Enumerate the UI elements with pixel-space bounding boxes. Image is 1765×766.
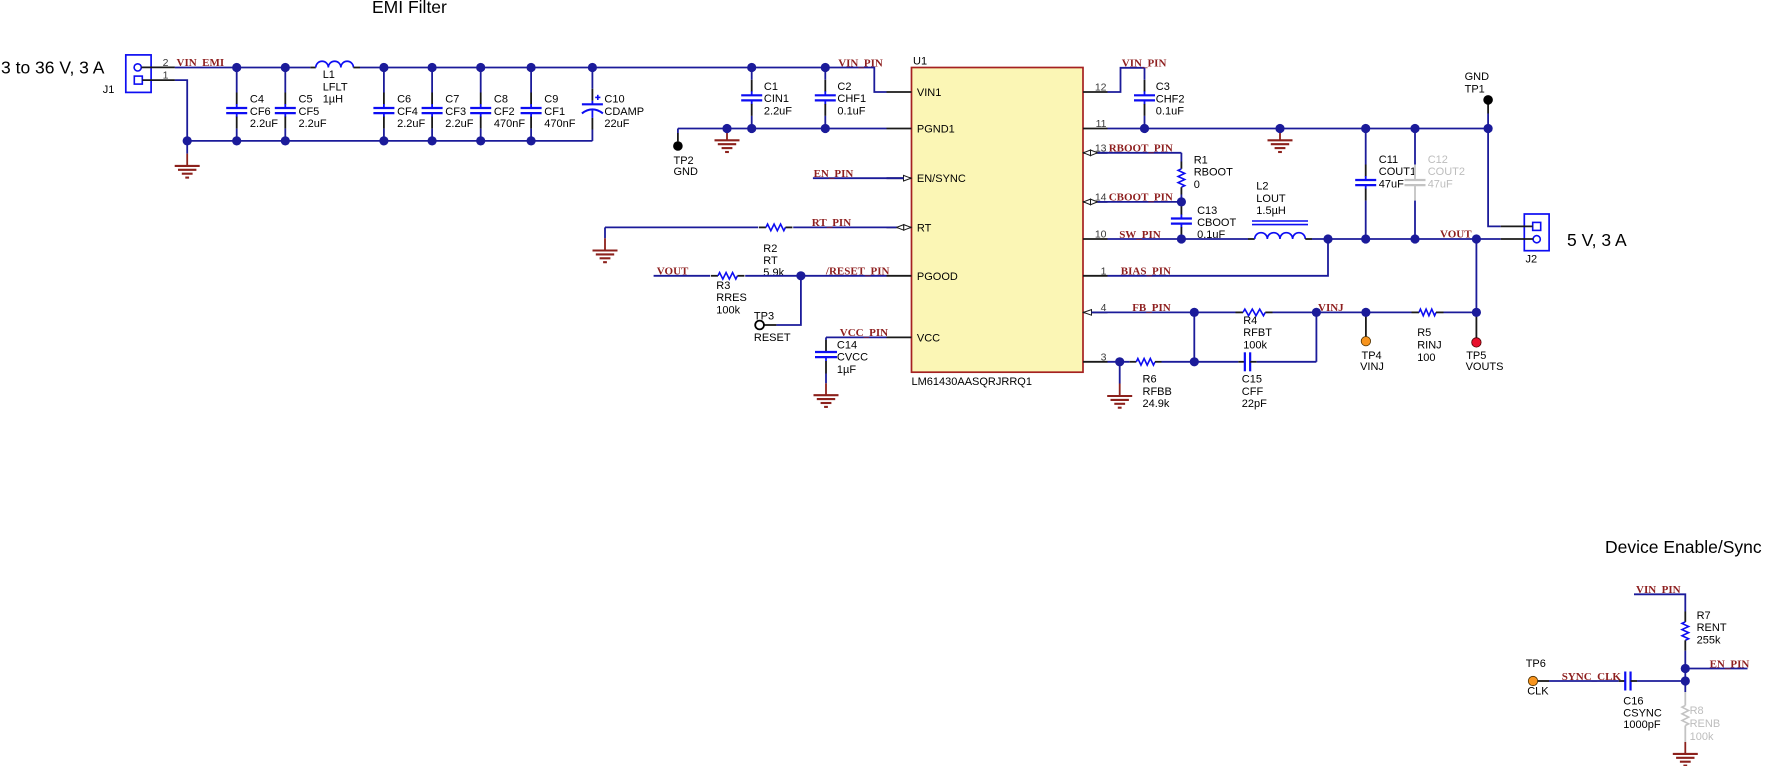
junction PGND at ground xyxy=(722,124,731,133)
net label EN_PIN device xyxy=(1710,658,1750,670)
svg-text:0: 0 xyxy=(1194,179,1200,191)
svg-text:CBOOT_PIN: CBOOT_PIN xyxy=(1109,192,1173,204)
svg-text:PGND1: PGND1 xyxy=(917,124,955,136)
junction FB TP4 xyxy=(1361,308,1370,317)
ground at PGND1 xyxy=(715,130,740,152)
svg-text:3 to 36 V, 3 A: 3 to 36 V, 3 A xyxy=(1,58,105,78)
junction EN_PIN device xyxy=(1681,664,1690,673)
svg-text:C16: C16 xyxy=(1623,696,1643,708)
net label SW_PIN xyxy=(1119,229,1161,241)
svg-text:C12: C12 xyxy=(1428,154,1448,166)
TP6 label xyxy=(1526,658,1550,698)
svg-text:CVCC: CVCC xyxy=(837,352,868,364)
wire VINJ vertical xyxy=(1315,312,1317,361)
svg-text:COUT1: COUT1 xyxy=(1379,166,1416,178)
svg-text:Device Enable/Sync: Device Enable/Sync xyxy=(1605,537,1762,557)
svg-text:EN_PIN: EN_PIN xyxy=(1710,658,1750,670)
capacitor C13 xyxy=(1171,202,1192,239)
svg-text:L2: L2 xyxy=(1256,181,1268,193)
wire pin3 net xyxy=(1108,361,1130,363)
svg-text:VINJ: VINJ xyxy=(1318,302,1344,314)
ground at pin3 xyxy=(1107,362,1132,408)
svg-text:RBOOT: RBOOT xyxy=(1194,167,1233,179)
R8 value label xyxy=(1690,705,1721,743)
net label VIN_PIN device xyxy=(1636,584,1681,596)
junction GND TP1 xyxy=(1484,124,1493,133)
junction GND ground tap xyxy=(1275,124,1284,133)
svg-text:RENT: RENT xyxy=(1697,622,1727,634)
svg-text:CF4: CF4 xyxy=(397,106,418,118)
TP2 label xyxy=(674,155,699,178)
capacitor C5 xyxy=(275,68,296,141)
U1 pin EN/SYNC xyxy=(887,173,966,185)
net label VIN_EMI xyxy=(177,57,225,69)
svg-text:2.2uF: 2.2uF xyxy=(250,118,278,130)
svg-text:0.1uF: 0.1uF xyxy=(837,105,865,117)
svg-text:C11: C11 xyxy=(1379,154,1398,166)
svg-text:R6: R6 xyxy=(1143,374,1157,386)
svg-text:CIN1: CIN1 xyxy=(764,93,789,105)
net label VIN_PIN at C3 xyxy=(1122,57,1167,69)
wire EN_PIN stub xyxy=(813,177,904,179)
U1 pin 10 xyxy=(1083,238,1108,240)
U1 pin number 10 xyxy=(1095,229,1107,241)
capacitor C2 xyxy=(815,68,836,129)
U1 pin number 14 xyxy=(1095,191,1107,203)
junction pin3 C15 xyxy=(1190,357,1199,366)
capacitor C3 xyxy=(1134,68,1155,129)
EN/SYNC input arrow xyxy=(904,175,912,181)
wire PGOOD net xyxy=(654,275,887,277)
resistor R2 xyxy=(759,224,793,231)
svg-text:1000pF: 1000pF xyxy=(1623,719,1661,731)
inductor L2 xyxy=(1248,221,1312,239)
capacitor C8 xyxy=(470,68,491,141)
svg-text:12: 12 xyxy=(1095,82,1107,94)
net label FB_PIN xyxy=(1132,302,1171,314)
net label EN_PIN xyxy=(814,168,854,180)
U1 pin number 12 xyxy=(1095,82,1107,94)
junction VOUT BIAS xyxy=(1323,234,1332,243)
svg-text:47uF: 47uF xyxy=(1379,178,1404,190)
svg-text:VOUT: VOUT xyxy=(657,266,689,278)
wire PGND1 net xyxy=(678,128,887,130)
test point TP6 xyxy=(1528,676,1537,685)
junction top net x=236.7 xyxy=(232,63,241,72)
R1 value label xyxy=(1194,154,1233,191)
capacitor C16 xyxy=(1549,672,1685,691)
svg-text:5 V, 3 A: 5 V, 3 A xyxy=(1567,230,1627,250)
svg-text:100: 100 xyxy=(1417,352,1435,364)
C2 value label xyxy=(837,81,866,118)
svg-text:C2: C2 xyxy=(837,81,851,93)
resistor R1 xyxy=(1178,162,1185,202)
test point TP5 xyxy=(1472,338,1481,347)
U1 refdes xyxy=(913,56,927,68)
ground at C14 xyxy=(814,383,839,407)
junction CBOOT xyxy=(1177,197,1186,206)
junction VOUT TP5 xyxy=(1472,234,1481,243)
wire VIN_EMI L1 to VIN1 corner xyxy=(360,68,887,93)
junction PGND C2 xyxy=(821,124,830,133)
wire FB to pin3 vertical xyxy=(1193,312,1195,361)
svg-text:C13: C13 xyxy=(1197,205,1217,217)
U1 pin 14 xyxy=(1083,201,1108,203)
pin14 bidir arrow xyxy=(1084,199,1098,205)
svg-text:2.2uF: 2.2uF xyxy=(299,118,327,130)
junction top net x=592.4 xyxy=(588,63,597,72)
svg-text:L1: L1 xyxy=(323,69,335,81)
svg-text:C3: C3 xyxy=(1156,81,1170,93)
svg-text:RFBB: RFBB xyxy=(1143,386,1172,398)
svg-text:LM61430AASQRJRRQ1: LM61430AASQRJRRQ1 xyxy=(912,376,1032,388)
U1 pin 12 xyxy=(1083,91,1108,93)
wire pin12 to C3 xyxy=(1108,68,1145,92)
svg-text:EN_PIN: EN_PIN xyxy=(814,168,854,180)
junction top net x=285.3 xyxy=(281,63,290,72)
wire TP1 stem xyxy=(1487,100,1489,129)
wire RBOOT net xyxy=(1098,153,1182,162)
C14 value label xyxy=(837,339,868,376)
junction PGND C1 xyxy=(747,124,756,133)
svg-text:1.5µH: 1.5µH xyxy=(1256,205,1286,217)
U1 pin VCC xyxy=(887,332,941,344)
svg-text:C8: C8 xyxy=(494,94,508,106)
svg-text:11: 11 xyxy=(1096,118,1107,130)
RT pin bidir arrow xyxy=(897,225,912,231)
C6 value label xyxy=(397,94,425,131)
svg-text:470nF: 470nF xyxy=(494,118,525,130)
svg-text:VINJ: VINJ xyxy=(1360,361,1384,373)
svg-text:COUT2: COUT2 xyxy=(1428,166,1465,178)
test point TP1 xyxy=(1483,95,1493,105)
svg-text:0.1uF: 0.1uF xyxy=(1156,106,1184,118)
title: Device Enable/Sync xyxy=(1605,537,1762,557)
resistor R4 xyxy=(1236,309,1273,316)
test point TP4 xyxy=(1361,337,1370,346)
svg-text:100k: 100k xyxy=(1243,340,1267,352)
svg-text:C5: C5 xyxy=(299,94,313,106)
svg-text:RT_PIN: RT_PIN xyxy=(812,217,851,229)
svg-text:CF1: CF1 xyxy=(544,106,565,118)
svg-text:RENB: RENB xyxy=(1690,718,1721,730)
label: 3 to 36 V, 3 A input xyxy=(1,58,105,78)
net label RT_PIN xyxy=(812,217,851,229)
svg-text:22pF: 22pF xyxy=(1242,398,1267,410)
svg-text:EN/SYNC: EN/SYNC xyxy=(917,173,966,185)
junction top net x=531.1 xyxy=(527,63,536,72)
svg-text:C15: C15 xyxy=(1242,374,1262,386)
U1 pin 13 xyxy=(1083,152,1108,154)
junction FB TP5 xyxy=(1472,308,1481,317)
junction SYNC_CLK xyxy=(1681,676,1690,685)
wire R6 to C15 xyxy=(1162,361,1195,363)
U1 part number xyxy=(912,376,1032,388)
svg-text:2.2uF: 2.2uF xyxy=(445,118,473,130)
wire TP4 stem xyxy=(1365,312,1367,336)
capacitor C14 xyxy=(815,337,837,383)
capacitor C1 xyxy=(741,68,762,129)
net label VCC_PIN xyxy=(840,327,888,339)
net label VIN_PIN at C2 xyxy=(838,57,883,69)
svg-text:VIN1: VIN1 xyxy=(917,87,941,99)
junction top net x=383.9 xyxy=(379,63,388,72)
svg-text:1: 1 xyxy=(163,70,169,82)
connector J1 xyxy=(103,55,175,96)
svg-text:FB_PIN: FB_PIN xyxy=(1132,302,1171,314)
resistor R7 xyxy=(1682,612,1689,651)
svg-text:RT: RT xyxy=(763,255,778,267)
net label VOUT at J2 xyxy=(1440,229,1472,241)
U1 pin 11 xyxy=(1083,128,1108,130)
ground at pin11 net xyxy=(1268,130,1293,152)
wire R7 to junctions xyxy=(1684,651,1686,681)
svg-text:R7: R7 xyxy=(1697,610,1711,622)
junction top net x=751.7 xyxy=(747,63,756,72)
U1 pin 3 xyxy=(1083,361,1108,363)
svg-text:47uF: 47uF xyxy=(1428,178,1453,190)
U1 pin RT xyxy=(887,222,932,234)
junction GND C11 xyxy=(1361,124,1370,133)
TP5 label xyxy=(1466,350,1504,373)
C3 value label xyxy=(1156,81,1185,118)
U1 pin 1 xyxy=(1083,275,1108,277)
svg-text:R5: R5 xyxy=(1417,327,1431,339)
capacitor C7 xyxy=(422,68,443,141)
U1 pin PGOOD xyxy=(887,271,958,283)
junction bottom net x=383.9 xyxy=(379,136,388,145)
U1 pin number 13 xyxy=(1095,142,1107,154)
svg-text:CSYNC: CSYNC xyxy=(1623,707,1662,719)
svg-text:VCC: VCC xyxy=(917,332,940,344)
svg-text:255k: 255k xyxy=(1697,634,1721,646)
svg-text:CHF1: CHF1 xyxy=(837,93,866,105)
svg-text:CF3: CF3 xyxy=(445,106,466,118)
net label RBOOT_PIN xyxy=(1109,143,1173,155)
wire BIAS net xyxy=(1108,239,1329,276)
svg-text:/RESET_PIN: /RESET_PIN xyxy=(825,266,890,278)
svg-text:CF2: CF2 xyxy=(494,106,515,118)
svg-text:GND: GND xyxy=(674,166,699,178)
junction GND C3 xyxy=(1140,124,1149,133)
resistor R3 xyxy=(711,273,745,280)
svg-text:2: 2 xyxy=(163,57,169,69)
svg-text:C4: C4 xyxy=(250,94,264,106)
wire EMI bottom ground net xyxy=(187,140,592,142)
capacitor C12 (DNP) xyxy=(1405,129,1426,240)
svg-text:BIAS_PIN: BIAS_PIN xyxy=(1121,266,1171,278)
junction top net x=825.3 xyxy=(821,63,830,72)
C5 value label xyxy=(299,94,327,131)
test point TP2 xyxy=(673,141,683,151)
U1 pin number 1 xyxy=(1101,265,1107,277)
capacitor C6 xyxy=(373,68,394,141)
svg-text:R3: R3 xyxy=(716,280,730,292)
pin4 arrow xyxy=(1084,310,1092,316)
net label SYNC_CLK xyxy=(1562,671,1622,683)
svg-text:VOUT: VOUT xyxy=(1440,229,1472,241)
svg-text:CLK: CLK xyxy=(1527,686,1549,698)
svg-text:C10: C10 xyxy=(604,94,624,106)
C13 value label xyxy=(1197,205,1236,241)
resistor R6 xyxy=(1130,359,1162,366)
svg-text:TP1: TP1 xyxy=(1465,83,1485,95)
svg-text:2.2uF: 2.2uF xyxy=(764,105,792,117)
junction VINJ xyxy=(1312,308,1321,317)
svg-text:VIN_PIN: VIN_PIN xyxy=(1122,57,1167,69)
net label /RESET_PIN xyxy=(825,266,890,278)
svg-text:CHF2: CHF2 xyxy=(1156,93,1185,105)
U1 pin 4 xyxy=(1083,311,1108,313)
svg-text:C6: C6 xyxy=(397,94,411,106)
ground at R8 xyxy=(1673,742,1698,766)
svg-text:PGOOD: PGOOD xyxy=(917,271,958,283)
junction VOUT C11 xyxy=(1361,234,1370,243)
svg-text:RRES: RRES xyxy=(716,292,747,304)
svg-text:GND: GND xyxy=(1465,71,1490,83)
J1 pin number 2 xyxy=(163,57,169,69)
wire J1 pin1 down to ground net xyxy=(175,80,187,141)
resistor R8 (DNP) xyxy=(1682,681,1689,742)
svg-text:LOUT: LOUT xyxy=(1256,193,1286,205)
capacitor C9 xyxy=(521,68,542,141)
wire GND to J2 xyxy=(1488,129,1501,227)
svg-text:RT: RT xyxy=(917,222,932,234)
svg-text:100k: 100k xyxy=(1690,731,1714,743)
label: 5 V, 3 A output xyxy=(1567,230,1627,250)
svg-text:TP3: TP3 xyxy=(754,310,774,322)
ground at J1 input xyxy=(175,141,200,178)
junction bottom net x=285.3 xyxy=(281,136,290,145)
svg-text:CF6: CF6 xyxy=(250,106,271,118)
junction bottom net x=480.7 xyxy=(476,136,485,145)
svg-text:5.9k: 5.9k xyxy=(763,267,784,279)
wire TP2 stem xyxy=(677,129,679,142)
net label BIAS_PIN xyxy=(1121,266,1171,278)
R7 value label xyxy=(1697,610,1727,647)
svg-text:3: 3 xyxy=(1101,351,1107,363)
capacitor C10 (polarized) xyxy=(582,68,603,141)
wire VIN_PIN device xyxy=(1634,594,1685,611)
C1 value label xyxy=(764,81,792,118)
pin13 bidir arrow xyxy=(1084,150,1098,156)
C15 value label xyxy=(1242,374,1267,411)
inductor L1 xyxy=(310,61,360,67)
TP4 label xyxy=(1360,350,1384,373)
capacitor C15 xyxy=(1194,352,1316,371)
svg-text:R4: R4 xyxy=(1243,315,1257,327)
capacitor C4 xyxy=(226,68,247,141)
svg-text:SW_PIN: SW_PIN xyxy=(1119,229,1161,241)
U1 pin PGND1 xyxy=(887,124,955,136)
svg-text:LFLT: LFLT xyxy=(323,81,348,93)
svg-text:RINJ: RINJ xyxy=(1417,340,1441,352)
svg-text:TP6: TP6 xyxy=(1526,658,1546,670)
wire TP5 stem xyxy=(1475,312,1477,337)
svg-text:C9: C9 xyxy=(544,94,558,106)
wire VIN_EMI J1 to L1 xyxy=(175,67,310,69)
R4 value label xyxy=(1243,315,1272,352)
svg-text:1µH: 1µH xyxy=(323,94,343,106)
R2 value label xyxy=(763,243,784,279)
test point TP3 xyxy=(755,321,764,330)
resistor R5 xyxy=(1412,309,1444,316)
junction SW C13 xyxy=(1177,234,1186,243)
wire RT net xyxy=(605,226,897,228)
wire VCC net xyxy=(826,336,887,338)
R6 value label xyxy=(1143,374,1172,411)
svg-text:EMI Filter: EMI Filter xyxy=(372,0,447,17)
junction bottom net x=531.1 xyxy=(527,136,536,145)
wire CBOOT net xyxy=(1098,201,1182,203)
C9 value label xyxy=(544,94,575,131)
TP1 label xyxy=(1465,71,1490,95)
svg-text:CDAMP: CDAMP xyxy=(604,106,644,118)
svg-text:R8: R8 xyxy=(1690,705,1704,717)
U1 pin number 3 xyxy=(1101,351,1107,363)
junction top net x=432.1 xyxy=(428,63,437,72)
svg-text:J1: J1 xyxy=(103,84,115,96)
svg-text:100k: 100k xyxy=(716,304,740,316)
junction PGOOD TP3 xyxy=(796,271,805,280)
junction bottom net x=432.1 xyxy=(428,136,437,145)
C10 value label xyxy=(604,94,644,131)
wire FB net xyxy=(1092,311,1477,313)
svg-text:470nF: 470nF xyxy=(544,118,575,130)
title: EMI Filter xyxy=(372,0,447,17)
net label VINJ xyxy=(1318,302,1344,314)
net label VOUT at R3 xyxy=(657,266,689,278)
svg-text:VIN_PIN: VIN_PIN xyxy=(838,57,883,69)
svg-text:R1: R1 xyxy=(1194,154,1208,166)
connector J2 xyxy=(1501,214,1549,265)
L1 value label xyxy=(323,69,348,106)
R5 value label xyxy=(1417,327,1441,364)
svg-text:C14: C14 xyxy=(837,339,857,351)
C7 value label xyxy=(445,94,473,131)
svg-text:1: 1 xyxy=(1101,265,1107,277)
svg-text:C1: C1 xyxy=(764,81,778,93)
svg-text:CBOOT: CBOOT xyxy=(1197,217,1236,229)
svg-text:22uF: 22uF xyxy=(604,118,629,130)
U1 pin number 4 xyxy=(1101,302,1107,314)
svg-text:10: 10 xyxy=(1095,229,1107,241)
C4 value label xyxy=(250,94,278,131)
svg-text:RBOOT_PIN: RBOOT_PIN xyxy=(1109,143,1173,155)
svg-text:2.2uF: 2.2uF xyxy=(397,118,425,130)
wire VOUT net xyxy=(1312,238,1501,240)
svg-text:C7: C7 xyxy=(445,94,459,106)
U1 pin number 11 xyxy=(1096,118,1107,130)
svg-text:U1: U1 xyxy=(913,56,927,68)
junction VOUT C12 xyxy=(1410,234,1419,243)
TP3 label xyxy=(754,310,791,344)
C12 value label xyxy=(1428,154,1465,191)
svg-text:CFF: CFF xyxy=(1242,386,1264,398)
svg-text:CF5: CF5 xyxy=(299,106,320,118)
ground at RT xyxy=(593,227,618,262)
svg-text:1µF: 1µF xyxy=(837,364,856,376)
junction bottom net x=187.2 xyxy=(183,136,192,145)
R3 value label xyxy=(716,280,747,317)
U1 pin VIN1 xyxy=(887,87,942,99)
junction GND C12 xyxy=(1410,124,1419,133)
wire GND net pin11 xyxy=(1108,128,1489,130)
junction top net x=480.7 xyxy=(476,63,485,72)
svg-text:RESET: RESET xyxy=(754,332,791,344)
svg-text:VOUTS: VOUTS xyxy=(1466,361,1504,373)
wire VOUT to FB vertical xyxy=(1475,239,1477,312)
